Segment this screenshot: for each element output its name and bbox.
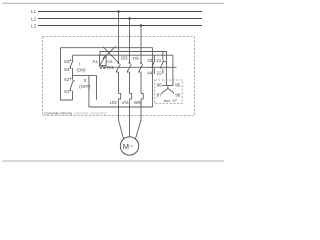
undervoltage release coil box A1-A2: [100, 55, 107, 65]
svg-text:21: 21: [156, 58, 162, 63]
svg-text:62: 62: [64, 77, 70, 82]
mechanism bar across poles: [104, 66, 177, 68]
thermal overload element pole 3: [141, 94, 143, 108]
svg-text:L3: L3: [31, 23, 37, 28]
svg-text:M: M: [123, 142, 129, 151]
svg-text:44: 44: [147, 70, 153, 75]
wire pole3 to motor: [135, 107, 141, 140]
thermal overload element pole 1: [119, 94, 121, 108]
svg-text:53: 53: [64, 59, 70, 64]
svg-text:T/5: T/5: [132, 56, 139, 61]
junction on L2: [128, 17, 131, 20]
svg-text:0: 0: [84, 78, 87, 83]
mechanism line P: [73, 55, 173, 85]
coil terminal chevrons: [99, 66, 105, 69]
motor M1: [120, 137, 138, 155]
device left lower edge: [88, 75, 90, 107]
device bottom edge: [89, 106, 153, 108]
ON/OFF divider line: [73, 74, 97, 76]
wire pole2 to motor: [129, 107, 131, 137]
trip cross arm a: [103, 47, 118, 63]
top rule: [2, 2, 224, 4]
pushbutton block box: [61, 48, 73, 100]
aux trip contact dashed box: [155, 80, 182, 104]
OFF box right edge: [96, 75, 98, 99]
svg-text:~: ~: [129, 143, 133, 150]
svg-text:U/2: U/2: [110, 100, 118, 105]
power line L1: [38, 11, 202, 13]
bottom rule: [2, 160, 224, 162]
wire pole1 to motor: [119, 107, 124, 140]
power line L2: [38, 18, 202, 20]
svg-text:L1: L1: [31, 9, 37, 14]
junction on L1: [117, 10, 120, 13]
mechanism line Q: [100, 52, 166, 86]
svg-text:S/3: S/3: [121, 55, 128, 60]
svg-text:R/1: R/1: [107, 65, 115, 70]
thermal overload element pole 2: [130, 94, 132, 108]
svg-text:61: 61: [64, 89, 70, 94]
dashed enclosure box: [43, 37, 195, 116]
svg-text:W/6: W/6: [134, 100, 143, 105]
wire L1 drop to pole 1: [118, 12, 120, 63]
svg-text:Conexão interna / Internal con: Conexão interna / Internal connection: [44, 112, 107, 116]
power line L3: [38, 25, 202, 27]
contact 61-62 (OFF, NC): [70, 80, 75, 100]
svg-text:95: 95: [175, 82, 181, 87]
trip changeover contact 95-96-97-98: [162, 85, 173, 94]
device right edge: [152, 48, 154, 107]
pole 2 breaker contact: [127, 64, 131, 93]
svg-text:L2: L2: [31, 16, 37, 21]
svg-text:Aux. 97: Aux. 97: [163, 98, 177, 103]
trip cross arm b: [103, 47, 116, 59]
contact 53-54 (ON, NO): [70, 55, 73, 80]
svg-text:96: 96: [157, 82, 163, 87]
svg-text:I: I: [79, 62, 80, 67]
wire L2 drop to pole 2: [129, 19, 131, 63]
svg-text:43: 43: [147, 58, 153, 63]
svg-text:V/4: V/4: [122, 100, 129, 105]
wire L3 drop to pole 3: [140, 26, 142, 63]
device top edge: [61, 47, 153, 49]
aux contact 21-22 (NC): [160, 52, 165, 74]
svg-text:(OFF): (OFF): [79, 84, 91, 89]
svg-text:97: 97: [157, 92, 163, 97]
svg-text:98: 98: [175, 92, 181, 97]
svg-text:54: 54: [64, 67, 70, 72]
pole 3 breaker contact: [139, 64, 143, 93]
svg-text:22: 22: [157, 70, 163, 75]
pole terminal nubs: [116, 62, 142, 72]
coil diagonal stroke: [100, 55, 107, 65]
pole 1 breaker contact: [116, 64, 120, 93]
svg-text:A1: A1: [92, 59, 98, 64]
junction on L3: [140, 24, 143, 27]
svg-text:(ON): (ON): [76, 67, 86, 72]
aux contact 43-44 (NO): [152, 55, 155, 74]
svg-text:A2: A2: [107, 59, 113, 64]
